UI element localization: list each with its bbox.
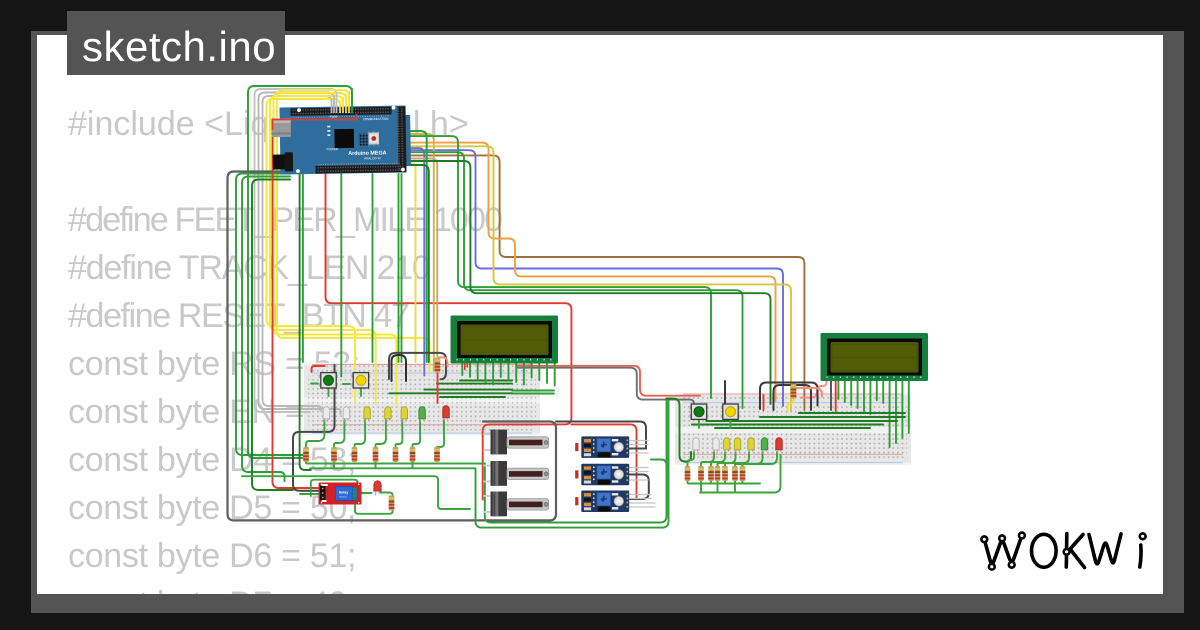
reset button: [368, 132, 379, 144]
pushbutton green BB1: [319, 373, 338, 388]
breadboard2 green bus rows: [692, 413, 905, 428]
wire green connector: [651, 460, 667, 471]
LED white D9 BB2: [713, 438, 719, 454]
LED yellow D10 BB2: [724, 438, 730, 454]
breadboard1 LED to resistor links: [306, 420, 444, 447]
wire green bottom pins to breadboard1: [303, 174, 402, 377]
resistor R6 BB1: [410, 447, 416, 462]
wire gray jumper 2: [259, 93, 341, 415]
LED red D7 BB1: [443, 406, 449, 422]
pushbutton green BB2: [689, 404, 708, 419]
resistor R10 BB2: [698, 466, 704, 481]
wire red breadboard1 to breadboard2: [312, 366, 325, 372]
LED white D1 BB1: [323, 407, 329, 423]
resistor R7 BB1: [434, 447, 440, 462]
resistor R8 standing BB1: [435, 358, 441, 373]
wire green long 1 (Arduino to breadboard2): [405, 136, 711, 398]
wire green to relay area: [300, 174, 311, 470]
wire red breadboard1 to pot box right: [571, 424, 636, 498]
wire green left 1: [236, 174, 306, 456]
relay module K1: [319, 483, 362, 505]
resistor R17 relay output: [389, 496, 395, 511]
breadboard2 dark jumper: [830, 381, 832, 410]
board silk labels: [326, 114, 389, 161]
breadboard1 black loops: [389, 353, 446, 379]
slide potentiometer VR2: [491, 461, 549, 486]
wire blue short (Arduino to breadboard1): [405, 148, 424, 376]
LED yellow D12 BB2: [748, 438, 754, 454]
wire black pot box right: [556, 422, 646, 449]
power jack: [273, 154, 293, 169]
wire gold short: [405, 134, 434, 371]
LCD2 pin comb wires: [838, 382, 908, 448]
breadboard2 standing resistor salmon hook: [796, 388, 823, 397]
resistor R4 BB1: [373, 447, 379, 462]
wire yellow jumper 4: [277, 90, 430, 372]
MCU chip: [334, 129, 354, 148]
wire dark breadboard1 bottom rail: [293, 365, 335, 491]
slide potentiometer VR3: [491, 492, 549, 517]
wire green loop A (breadboard1 to pots bottom): [485, 391, 667, 523]
wire green left 2: [242, 177, 290, 482]
resistor R13 BB2: [722, 466, 728, 481]
wire tan (Arduino to resistor on breadboard1): [405, 159, 437, 357]
pushbutton yellow BB1: [351, 373, 370, 388]
LED white D8 BB2: [693, 438, 699, 454]
breadboard1 standing resistor salmon hook: [439, 357, 448, 366]
resistor R2 BB1: [331, 447, 337, 462]
sensor module M1: [575, 436, 629, 458]
slide potentiometer VR1: [491, 430, 549, 455]
wire black module links: [630, 449, 649, 500]
breadboard2 salmon wires: [801, 378, 836, 411]
LCD2 16x2 display: [821, 333, 929, 381]
wire green jumper top loop: [248, 86, 352, 458]
pushbutton yellow BB2: [721, 404, 740, 419]
breadboard2 button leg wires: [699, 420, 731, 428]
wire stubs over Arduino top header: [332, 88, 353, 113]
module pin leads: [630, 441, 656, 508]
LCD1 16x2 display: [451, 316, 559, 364]
resistor R9 BB2: [685, 466, 691, 481]
svg-text:POWER: POWER: [327, 147, 339, 151]
wire green short 1: [405, 131, 427, 362]
resistor R11 BB2: [708, 466, 714, 481]
wire red long (Arduino to LCD1 right and pot frame): [326, 173, 572, 500]
wire yellow jumper 1 (Arduino top to breadboard1): [267, 99, 356, 402]
LED yellow D4 BB1: [385, 407, 391, 423]
breadboard2 standing resistor leads: [788, 399, 794, 412]
USB connector: [271, 118, 291, 137]
wire yellow jumper 3: [274, 93, 397, 404]
wire orange long (Arduino to breadboard2): [405, 143, 776, 401]
breadboard1 resistor bottom bus 2: [310, 462, 476, 468]
wire yellow long (Arduino to breadboard2): [405, 146, 791, 411]
wire green long 3: [405, 161, 771, 404]
breadboard1 resistor bottom bus 1: [306, 462, 485, 464]
breadboard2 LED to resistor links: [688, 452, 778, 466]
breadboard2 red stub: [763, 395, 765, 410]
svg-text:Module: Module: [340, 497, 348, 499]
sensor module M2: [575, 464, 629, 486]
breadboard BB1: [304, 363, 540, 436]
svg-text:ANALOG IN: ANALOG IN: [364, 156, 380, 160]
Arduino Mega U1: [271, 105, 411, 199]
wire green loop B: [476, 394, 669, 528]
wire green long 2: [405, 152, 743, 408]
resistor R15 BB2: [740, 466, 746, 481]
resistor R1 BB1: [303, 447, 309, 462]
wire yellow jumper 2: [270, 96, 376, 404]
pot lead stubs: [484, 434, 491, 512]
breadboard1 standing resistor red lead: [437, 373, 439, 403]
sensor module M3: [575, 491, 629, 513]
resistor R5 BB1: [393, 447, 399, 462]
LED red D14 BB2: [776, 438, 782, 454]
relay green loop: [242, 476, 470, 514]
wire green short 2: [405, 165, 429, 362]
LCD1 pin comb wires: [462, 364, 554, 386]
wire gray jumper 1 (Arduino top to breadboard1 white LED): [263, 96, 332, 411]
resistor R12 BB2: [715, 466, 721, 481]
LED white D2 BB1: [343, 407, 349, 423]
LCD1 leftmost pin stubs: [465, 364, 468, 370]
wire gray breadboard1 to breadboard2: [517, 368, 694, 408]
LED yellow D11 BB2: [734, 438, 740, 454]
wire red main (Arduino to relay): [273, 128, 319, 488]
ICSP pin grid: [358, 133, 367, 145]
LED yellow D3 BB1: [364, 407, 370, 423]
wire green breadboard2 left entry: [667, 399, 692, 462]
LED red standalone D15: [374, 481, 381, 496]
wire blue long (Arduino to breadboard2): [405, 150, 783, 406]
breadboard BB2: [675, 393, 911, 466]
wire green left 3: [252, 180, 293, 491]
wire gray jumper 3: [255, 89, 337, 412]
breadboard2 resistor bottom buses: [688, 455, 781, 493]
wire yellow short: [405, 163, 416, 362]
wire brown long (Arduino to breadboard2): [405, 155, 804, 410]
breadboard1 button leg wires: [311, 384, 361, 397]
LED yellow D5 BB1: [401, 407, 407, 423]
breadboard2 black loops: [725, 381, 818, 410]
resistor R3 BB1: [352, 447, 358, 462]
svg-text:Relay: Relay: [339, 491, 349, 495]
LED green D6 BB1: [419, 407, 425, 423]
LED green D13 BB2: [761, 438, 767, 454]
wire dark gray long frame (left side, bottom, pot box): [228, 172, 557, 521]
resistor R16 standing BB2: [791, 384, 797, 399]
resistor R14 BB2: [732, 466, 738, 481]
screw holes: [295, 106, 405, 174]
wire red over Arduino: [273, 114, 357, 130]
Wokwi logo: [984, 534, 1141, 568]
